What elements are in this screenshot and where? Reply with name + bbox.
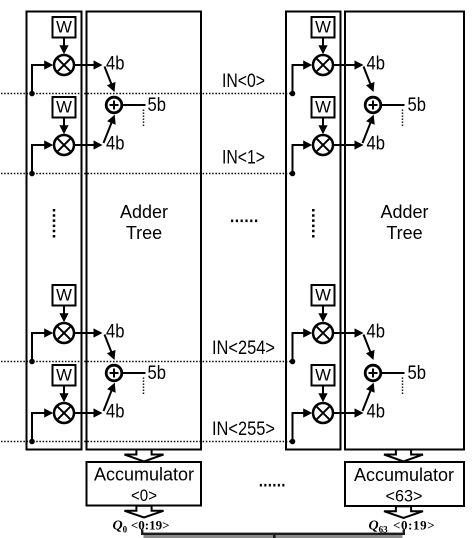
svg-text:W: W xyxy=(315,287,331,305)
svg-text:4b: 4b xyxy=(367,134,386,155)
svg-text:W: W xyxy=(315,19,331,37)
svg-text:Accumulator: Accumulator xyxy=(354,465,454,485)
svg-text:IN<0>: IN<0> xyxy=(222,70,265,92)
svg-text:4b: 4b xyxy=(367,322,386,343)
svg-text:5b: 5b xyxy=(408,95,427,116)
svg-text:W: W xyxy=(315,367,331,385)
svg-text:IN<254>: IN<254> xyxy=(212,337,275,359)
svg-text:<63>: <63> xyxy=(386,488,423,506)
svg-text:Tree: Tree xyxy=(126,223,162,243)
svg-text:5b: 5b xyxy=(148,95,167,116)
svg-text:Q63 <0:19>: Q63 <0:19> xyxy=(369,518,436,535)
svg-text:4b: 4b xyxy=(106,322,125,343)
svg-text:W: W xyxy=(56,287,72,305)
svg-text:4b: 4b xyxy=(367,402,386,423)
svg-text:<0>: <0> xyxy=(131,487,157,505)
svg-text:W: W xyxy=(56,99,72,117)
svg-text:IN<255>: IN<255> xyxy=(212,418,275,440)
svg-text:5b: 5b xyxy=(408,363,427,384)
svg-text:Tree: Tree xyxy=(386,223,422,243)
svg-text:Accumulator: Accumulator xyxy=(94,465,194,485)
svg-text:4b: 4b xyxy=(106,134,125,155)
svg-text:Adder: Adder xyxy=(120,202,168,222)
svg-text:4b: 4b xyxy=(367,54,386,75)
svg-text:W: W xyxy=(56,19,72,37)
svg-text:W: W xyxy=(315,99,331,117)
svg-text:4b: 4b xyxy=(106,54,125,75)
svg-text:5b: 5b xyxy=(148,363,167,384)
svg-text:W: W xyxy=(56,367,72,385)
svg-text:Adder: Adder xyxy=(380,202,428,222)
svg-text:4b: 4b xyxy=(106,402,125,423)
svg-text:IN<1>: IN<1> xyxy=(222,147,265,169)
